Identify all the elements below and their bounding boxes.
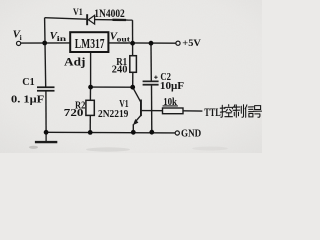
svg-text:240: 240: [112, 65, 128, 76]
wire: top diode rail right segment: [94, 19, 132, 22]
svg-text:720: 720: [64, 108, 84, 119]
label CJK char kong (control-1): [220, 105, 224, 117]
junction node ground/C1: [44, 130, 49, 135]
svg-text:0. 1μF: 0. 1μF: [11, 95, 44, 106]
wire: C2 bottom lead to ground rail: [151, 86, 153, 133]
paper background: [0, 0, 262, 153]
ground symbol bar: [35, 141, 57, 143]
wire: R2 bottom lead: [89, 115, 91, 132]
wire: top rail dark thick smudge: [113, 19, 127, 22]
junction node adj/R2: [88, 85, 93, 90]
diode V1 1N4002 anode triangle (points left): [88, 15, 94, 24]
wire: transistor collector diagonal from adj node: [133, 87, 141, 102]
wire: R1 bottom lead to adj node: [132, 72, 134, 87]
wire: Adj pin of LM317 down: [90, 52, 92, 87]
capacitor C1 top plate: [37, 86, 55, 88]
capacitor C1 bottom plate: [37, 90, 55, 92]
svg-text:TTL: TTL: [204, 107, 221, 119]
junction node R2/ground rail: [88, 130, 93, 135]
op-amp/regulator U1 LM317 box: [70, 32, 108, 52]
ground symbol stub: [45, 132, 47, 141]
wire: 10k to TTL signal: [183, 110, 202, 112]
terminal GND: [175, 131, 179, 135]
label CJK char zhi (control-2): [233, 105, 240, 117]
label 10k underline: [163, 105, 178, 107]
wire: R1 top lead from output rail: [132, 43, 134, 56]
wire: main input rail Vi to LM317: [21, 42, 71, 44]
junction node adj/R1/collector: [130, 85, 135, 90]
svg-text:GND: GND: [181, 129, 201, 140]
terminal +5V: [176, 41, 180, 45]
wire: diode branch vertical down to output rail: [132, 20, 134, 43]
terminal Vi: [17, 41, 21, 45]
transistor V1 2N2219 base bar: [140, 100, 142, 117]
junction node C2 at output rail: [149, 41, 154, 46]
wire: C1 bottom to ground junction: [45, 91, 47, 133]
wire: C2 top lead from output rail: [150, 43, 152, 80]
capacitor C2 top plate: [143, 81, 159, 83]
svg-text:+5V: +5V: [182, 39, 201, 49]
svg-text:10μF: 10μF: [160, 81, 184, 92]
wire: R2 top lead: [89, 87, 91, 100]
resistor 10k body: [163, 108, 184, 114]
junction node emitter/ground rail: [131, 130, 136, 135]
label CJK char hao (signal-4): [253, 106, 261, 118]
scan smudge bottom-right: [192, 147, 228, 151]
wire: bottom ground rail: [46, 131, 175, 134]
resistor R1 body: [130, 56, 137, 73]
svg-text:1N4002: 1N4002: [94, 8, 125, 20]
capacitor C2 bottom plate: [143, 84, 159, 86]
svg-text:2N2219: 2N2219: [98, 109, 128, 120]
svg-text:LM317: LM317: [75, 37, 105, 52]
svg-text:i: i: [20, 33, 22, 42]
wire: output rail LM317 to +5V terminal: [108, 42, 176, 44]
transistor V1 emitter arrowhead: [133, 119, 139, 125]
svg-text:out: out: [117, 35, 131, 44]
diode V1 1N4002 cathode bar: [86, 14, 88, 25]
wire: input branch vertical (top corner down through Vin junction to C1): [45, 18, 46, 87]
wire: emitter vertical to ground rail: [132, 124, 134, 132]
wire: emitter diagonal: [135, 115, 141, 122]
svg-text:C1: C1: [22, 77, 34, 88]
svg-text:V1: V1: [73, 8, 83, 18]
junction node at Vin/C1: [42, 41, 47, 46]
capacitor C2 plus sign: [154, 76, 157, 79]
resistor R2 body: [86, 100, 94, 115]
label CJK char xin (control-3): [245, 105, 247, 117]
junction node C2/ground rail: [149, 130, 154, 135]
svg-text:Adj: Adj: [64, 55, 85, 69]
wire: adj node horizontal: [91, 86, 133, 88]
svg-text:in: in: [57, 34, 68, 43]
wire: top diode rail left segment: [45, 18, 87, 20]
scan smudge bottom-left: [29, 146, 38, 149]
scan smudge bottom-center: [86, 147, 130, 151]
wire: base lead from transistor to 10k: [142, 110, 163, 112]
junction node diode/R1 at output rail: [130, 41, 135, 46]
